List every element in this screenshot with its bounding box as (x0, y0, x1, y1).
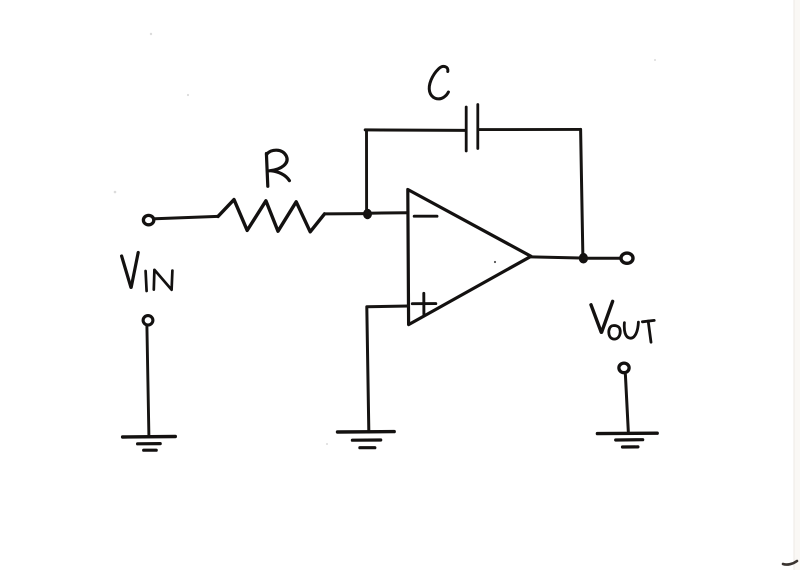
ground (Vout) (597, 433, 657, 447)
op-amp plus sign (412, 293, 436, 314)
wire node to op-amp inverting input (368, 211, 408, 215)
resistor R (218, 200, 325, 232)
faint paper specks (114, 33, 656, 445)
wire plus input (367, 306, 409, 430)
label C (429, 66, 448, 98)
node B (output junction) (579, 253, 588, 264)
wire resistor to node (325, 212, 366, 215)
wire feedback top left (365, 128, 465, 132)
label R (266, 150, 289, 186)
wire input to resistor (155, 216, 218, 218)
tiny ink speck (494, 261, 496, 263)
wire feedback top right (479, 128, 581, 131)
Vout lower terminal (619, 363, 629, 373)
wire Vin terminal to ground (147, 326, 149, 436)
wire op-amp output (531, 257, 580, 258)
output terminal (Vout) (621, 253, 633, 263)
wire node to output terminal (583, 257, 621, 260)
wire Vout terminal to ground (625, 375, 628, 431)
wire feedback right vertical (581, 129, 583, 257)
Vin lower terminal (143, 316, 153, 325)
ground (plus input) (338, 432, 395, 448)
capacitor C (466, 105, 478, 152)
ground (Vin) (123, 437, 176, 451)
wire feedback left vertical (365, 130, 368, 213)
op-amp U1 triangle (408, 190, 531, 325)
label Vout (591, 301, 613, 332)
op-amp minus sign (414, 215, 437, 218)
node A (inverting input junction) (363, 209, 372, 219)
label Vin (122, 253, 139, 288)
input terminal (Vin) (143, 215, 153, 224)
